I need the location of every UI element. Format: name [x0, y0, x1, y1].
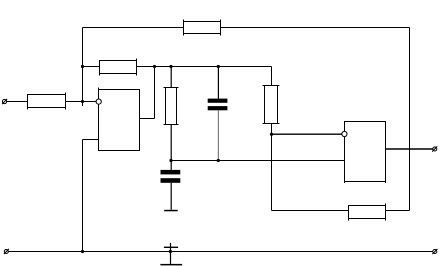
wire input to R1 — [7, 101, 28, 103]
node U1 inverting input bubble — [96, 99, 101, 104]
node junction C1 bottom / mid rail — [217, 159, 220, 162]
node junction input wire / left vertical — [81, 100, 84, 103]
node U2 inverting input bubble — [342, 131, 347, 136]
ground bar below C2 — [164, 210, 178, 212]
node junction R2 left / left vertical — [81, 65, 84, 68]
resistor R4 — [263, 67, 280, 211]
wire top rail right of R6 — [221, 27, 410, 29]
wire mid rail y160 to U2 input2 — [171, 160, 345, 162]
resistor R1 — [28, 93, 66, 110]
wire R5 right lead — [386, 210, 410, 212]
wire right vertical — [409, 28, 411, 211]
terminal input left — [2, 99, 7, 104]
capacitor C2 — [161, 161, 181, 210]
terminal output right — [432, 146, 437, 151]
resistor R5 — [349, 204, 386, 221]
op-amp U2 box — [345, 122, 386, 184]
wire left vertical upper — [82, 28, 84, 107]
resistor R3 — [164, 67, 179, 161]
node junction R3 bottom / mid rail — [169, 159, 172, 162]
terminal bottom left — [4, 249, 9, 254]
resistor R2 — [100, 59, 137, 76]
wire U1 second input — [83, 139, 99, 141]
wire left vertical lower — [82, 140, 84, 252]
wire U2 output — [386, 148, 433, 150]
node junction U1 output vertical / rail y66 — [153, 65, 156, 68]
node junction R3 top / rail y66 — [169, 65, 172, 68]
node junction C1 top / rail y66 — [217, 65, 220, 68]
wire U1 output to rail y66 — [154, 67, 156, 119]
wire R5 left lead — [272, 210, 349, 212]
capacitor C1 — [208, 67, 228, 161]
wire top rail left of R6 — [83, 27, 184, 29]
node junction R4 lead / U2 input1 wire — [270, 133, 273, 136]
resistor R6 — [184, 20, 221, 36]
node junction battery / bottom rail — [169, 250, 172, 253]
wire U2 input1 — [272, 133, 342, 135]
terminal bottom right — [432, 249, 437, 254]
op-amp U1 box — [99, 88, 140, 151]
wire R2 left lead — [83, 66, 100, 68]
wire rail y66 from R2 to R4 corner — [137, 66, 272, 68]
wire R1 to U1 input — [66, 101, 97, 103]
node junction left vertical / bottom rail — [81, 250, 84, 253]
wire bottom rail — [8, 251, 433, 253]
wire U1 output lead — [140, 118, 155, 120]
battery V1 — [160, 243, 182, 266]
